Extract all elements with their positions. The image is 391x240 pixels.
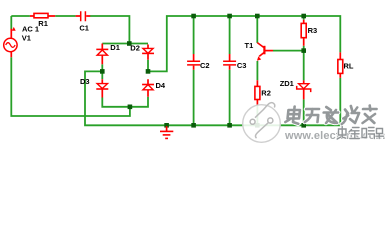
svg-text:T1: T1 [245, 41, 254, 50]
svg-text:R1: R1 [38, 19, 48, 28]
node dot R3 top [301, 14, 306, 19]
watermark text dianyuan lianmeng [337, 127, 383, 140]
node dot bridge R [146, 69, 151, 74]
diode D2 [142, 45, 154, 60]
svg-text:R2: R2 [261, 89, 271, 98]
wire D1 to node L and D3 top lead [101, 64, 103, 79]
wire T1 base to R3 node [273, 50, 304, 52]
svg-text:C3: C3 [237, 61, 247, 70]
diode D1 [96, 44, 108, 65]
diode D4 [142, 79, 154, 97]
wire T1 emitter to R2 column [256, 61, 258, 125]
watermark text dianzi fashaoyou [285, 106, 377, 125]
ground [160, 126, 173, 138]
resistor R3 [301, 20, 306, 46]
wire DC plus jog from node R up to top rail and down to RL [148, 16, 340, 71]
node dot C3 bottom [227, 123, 232, 128]
wire D2 bottom to node R [147, 60, 149, 72]
resistor R2 [255, 80, 260, 105]
svg-text:C2: C2 [200, 61, 210, 70]
svg-text:AC 1: AC 1 [22, 24, 39, 33]
zener diode ZD1 [297, 80, 311, 99]
svg-text:D3: D3 [80, 77, 90, 86]
capacitor C1 [76, 11, 91, 22]
node dot R3 ZD1 base [301, 48, 306, 53]
svg-text:ZD1: ZD1 [280, 79, 294, 88]
diode D3 [96, 79, 108, 97]
wire R3 ZD1 column [303, 16, 305, 125]
node dot ZD1 bottom [301, 123, 306, 128]
transistor T1 [257, 43, 273, 61]
wire top-left rail from V1 to bridge node T [11, 16, 129, 44]
svg-text:V1: V1 [22, 33, 31, 42]
node dot C2 bottom [191, 123, 196, 128]
wire V1 column down and AC return to bridge bottom node [11, 16, 130, 116]
node dot T1 collector top [255, 14, 260, 19]
node dot C3 top [227, 14, 232, 19]
wire T1 collector stub [256, 16, 258, 43]
resistor R1 [30, 13, 55, 17]
watermark logo circle [243, 103, 281, 143]
wire C2 column [193, 16, 195, 125]
resistor RL [338, 52, 343, 78]
svg-text:C1: C1 [79, 24, 89, 33]
svg-text:D4: D4 [156, 81, 166, 90]
wire RL bottom to rail [339, 78, 341, 125]
capacitor C2 [187, 54, 201, 70]
AC source V1 [4, 27, 17, 57]
svg-text:D1: D1 [110, 43, 120, 52]
wire C3 column [229, 16, 231, 125]
node dot bridge T [127, 41, 132, 46]
node dot bridge L [100, 69, 105, 74]
wire bridge node T row [102, 43, 148, 45]
svg-text:R3: R3 [308, 26, 318, 35]
node dot R2 bottom [255, 123, 260, 128]
node dot C2 top [191, 14, 196, 19]
svg-text:RL: RL [344, 62, 354, 71]
svg-text:D2: D2 [130, 44, 140, 53]
node dot bridge bottom [128, 105, 133, 110]
capacitor C3 [223, 54, 237, 70]
wire D3 bottom to bridge bottom row to D4 [102, 97, 148, 107]
node dot ground [164, 123, 169, 128]
wire DC minus from node L down to ground rail [85, 71, 340, 125]
